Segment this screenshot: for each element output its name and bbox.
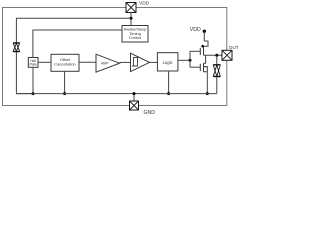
svg-text:VDD: VDD: [190, 27, 201, 33]
box Offset Cancellation: [51, 54, 79, 71]
wire hall plate to ground rail: [32, 67, 34, 93]
wire logic to ground rail: [168, 71, 170, 94]
junction VDD rail: [130, 17, 133, 20]
wire output zener top: [216, 55, 218, 64]
svg-text:GND: GND: [144, 110, 156, 116]
junction gate rail: [189, 59, 192, 62]
junction offset ground: [63, 92, 66, 95]
label OUT: [229, 45, 239, 50]
svg-text:OUT: OUT: [229, 45, 239, 50]
wire amp to comparator: [120, 61, 131, 63]
pad OUT: [222, 50, 232, 60]
svg-text:Logic: Logic: [163, 60, 173, 65]
wire offset cancellation to ground rail: [64, 71, 66, 93]
box Logic: [157, 53, 178, 71]
junction hall ground: [32, 92, 35, 95]
pad VDD: [126, 3, 136, 13]
wire timing control to hall plate bias: [33, 30, 122, 58]
wire ground rail to GND pad: [133, 94, 135, 101]
wire comparator to logic: [150, 61, 158, 63]
wire VDD terminal to Q1 drain: [202, 31, 208, 46]
wire output zener to ground rail: [216, 77, 218, 94]
wire ground rail: [16, 93, 216, 95]
svg-text:Control: Control: [129, 35, 142, 40]
wire offset cancellation to amp: [79, 61, 96, 63]
wire VDD rail: [16, 18, 131, 43]
junction logic ground: [167, 92, 170, 95]
zener D1 (supply clamp, bidirectional): [13, 43, 19, 52]
junction Q1 drain: [201, 45, 204, 48]
node VDD terminal: [203, 30, 206, 33]
wire output node to OUT pad: [204, 54, 223, 56]
junction GND pad: [133, 92, 136, 95]
transistor Q1 (upper output FET): [190, 46, 204, 55]
wire gate rail: [189, 51, 191, 67]
wire hall plate to offset cancellation: [38, 61, 51, 63]
pad GND: [130, 101, 139, 110]
label VDD (top pad): [139, 1, 150, 7]
transistor Q2 (lower output FET): [190, 55, 207, 93]
zener D2 (output clamp, bidirectional): [213, 65, 220, 77]
junction output zener tap: [215, 54, 218, 57]
svg-text:AMP: AMP: [101, 62, 109, 66]
label GND: [144, 110, 156, 116]
chip boundary: [3, 8, 227, 106]
op-amp AMP: [96, 54, 120, 72]
box Awake/Sleep Timing Control U1: [122, 26, 148, 43]
wire VDD pad to rail: [130, 13, 132, 26]
label VDD (output stage): [190, 27, 201, 33]
junction Q2 source ground: [206, 92, 209, 95]
wire zener D1 to ground rail: [16, 52, 33, 94]
svg-text:VDD: VDD: [139, 1, 150, 7]
svg-text:Cancellation: Cancellation: [54, 61, 75, 66]
wire logic to gate rail: [178, 59, 190, 61]
svg-text:Plate: Plate: [29, 63, 36, 67]
box Hall Plate: [28, 58, 38, 68]
comparator U2 (with hysteresis): [131, 53, 150, 71]
